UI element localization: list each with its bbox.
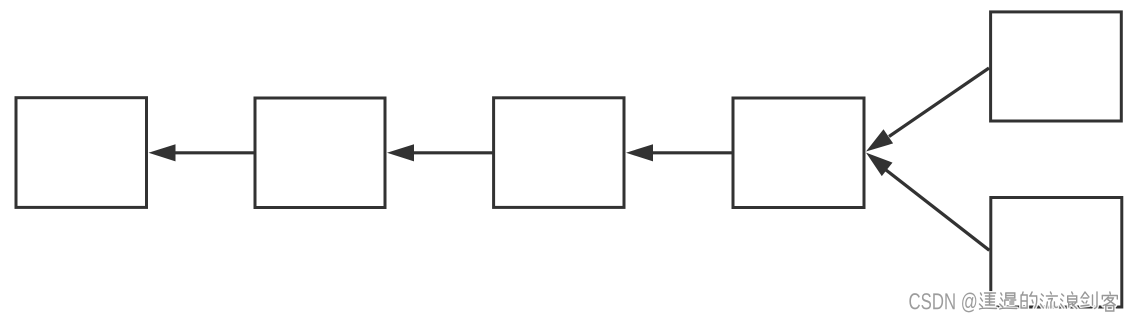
wire: arrow box2 to box1 (line) xyxy=(175,151,254,154)
glyph 剑 xyxy=(1081,292,1097,309)
arrowhead into box 4 (lower) xyxy=(866,153,893,177)
box 5 (top right) xyxy=(991,12,1122,121)
wire: arrow box3 to box2 (line) xyxy=(414,151,493,154)
glyph 的 xyxy=(1021,292,1037,308)
glyph 流 xyxy=(1040,292,1057,308)
glyph 的 xyxy=(1021,292,1037,308)
watermark: hand-drawn CJK glyphs xyxy=(980,292,1118,311)
glyph 浪 xyxy=(1061,292,1077,309)
box 2 xyxy=(255,98,385,208)
wire: diagonal arrow box6 to box4 (line) xyxy=(886,170,989,250)
glyph 邋 xyxy=(980,293,997,309)
glyph 邋 xyxy=(980,293,997,309)
glyph 剑 xyxy=(1081,292,1097,309)
box 6 (bottom right) xyxy=(991,198,1122,308)
wire: arrow box4 to box3 (line) xyxy=(653,151,732,154)
watermark: CSDN @ text xyxy=(909,293,976,313)
glyph 客 xyxy=(1102,292,1117,311)
wire: diagonal arrow box5 to box4 (line) xyxy=(889,68,989,137)
glyph 遢 xyxy=(1000,293,1017,309)
glyph 浪 xyxy=(1061,292,1077,309)
box 4 (row, rightmost) xyxy=(733,98,864,208)
box 3 xyxy=(494,98,624,208)
glyph 遢 xyxy=(1000,293,1017,309)
arrowhead into box 4 (upper) xyxy=(866,129,893,151)
arrowhead into box 2 xyxy=(387,144,414,161)
glyph 客 xyxy=(1102,292,1117,311)
glyph 流 xyxy=(1040,292,1057,308)
arrowhead into box 3 xyxy=(626,144,653,161)
watermark: CJK glyph gray strokes xyxy=(980,292,1118,311)
arrowhead into box 1 xyxy=(149,144,176,161)
box 1 (leftmost of row) xyxy=(16,98,147,208)
